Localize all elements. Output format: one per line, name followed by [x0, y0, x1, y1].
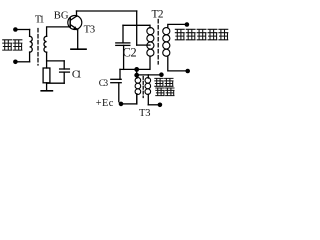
- svg-text:C2: C2: [123, 45, 137, 59]
- svg-text:C1: C1: [72, 68, 82, 80]
- svg-text:+Ec: +Ec: [96, 98, 114, 109]
- svg-text:T1: T1: [35, 15, 45, 26]
- svg-text:C3: C3: [99, 79, 109, 89]
- svg-text:T3: T3: [84, 24, 96, 36]
- svg-text:BG: BG: [54, 10, 69, 21]
- svg-text:T3: T3: [139, 108, 151, 118]
- svg-text:T2: T2: [152, 9, 164, 21]
